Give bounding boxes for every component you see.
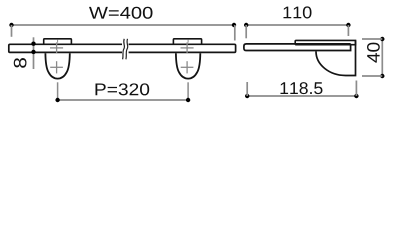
bracket top plate (side)	[295, 40, 355, 44]
40 dim bottom stub	[362, 75, 382, 77]
dimension P=320 line	[58, 99, 189, 101]
bracket B2 centerline (top)	[187, 39, 189, 42]
bracket B1 cross in U	[50, 61, 63, 73]
110 dim right dot	[346, 23, 350, 27]
bracket B1 cross at bar	[50, 42, 63, 53]
dimension 40 line	[381, 39, 383, 76]
40 dim top dot	[380, 37, 384, 41]
bracket B2 cap	[173, 39, 201, 44]
bracket B2 hanging U	[176, 53, 200, 78]
118.5 dim left extension	[246, 82, 248, 96]
110 dim right extension	[347, 25, 349, 36]
118.5 dim right dot	[354, 94, 358, 98]
label 8 (rotated)	[14, 58, 27, 68]
bracket B2 cross in U	[181, 61, 194, 73]
8 dim bottom dot	[31, 50, 35, 54]
shelf plate side view	[244, 44, 351, 51]
110 dim left extension	[245, 25, 247, 38]
P dim left dot	[55, 98, 59, 102]
dimension W=400 line	[12, 24, 235, 26]
W dim left dot	[9, 23, 13, 27]
label W=400	[89, 7, 153, 19]
118.5 dim left dot	[245, 94, 249, 98]
bracket B1 centerline (top)	[57, 39, 59, 42]
W dim right dot	[232, 23, 236, 27]
bracket body (side): right edge, bottom, cove arc	[316, 40, 356, 75]
P dim right dot	[186, 98, 190, 102]
bracket B2 cross at bar	[181, 42, 194, 53]
dimension 8 (bar thickness) line	[33, 37, 35, 69]
label 110	[284, 6, 312, 18]
bracket B1 centerline below (to P dim)	[57, 82, 59, 100]
break symbol	[123, 39, 128, 60]
110 dim left dot	[244, 23, 248, 27]
label 118.5	[281, 82, 323, 94]
bracket B1 hanging U	[45, 53, 69, 78]
W dim left extension	[11, 25, 13, 37]
bracket B1 cap	[44, 39, 72, 44]
dimension 110 line	[246, 24, 348, 26]
label 40 (rotated)	[367, 43, 380, 63]
8 dim top dot	[31, 42, 35, 46]
40 dim top stub	[362, 38, 382, 40]
bar (towel rail front view)	[9, 44, 236, 52]
W dim right extension	[234, 25, 236, 41]
40 dim bottom dot	[380, 74, 384, 78]
dimension 118.5 line	[247, 95, 356, 97]
label P=320	[96, 83, 150, 95]
118.5 dim right extension	[355, 81, 357, 97]
bracket B2 centerline below (to P dim)	[187, 82, 189, 100]
